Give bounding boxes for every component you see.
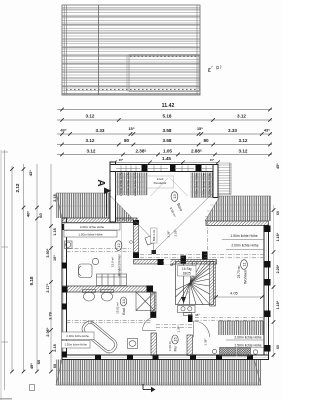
svg-text:1.50m lichte Höhe: 1.50m lichte Höhe [234, 343, 261, 347]
svg-text:2.38⁵: 2.38⁵ [167, 230, 171, 238]
svg-text:80: 80 [203, 138, 209, 143]
svg-text:60: 60 [36, 359, 41, 364]
svg-text:2.88⁵: 2.88⁵ [191, 148, 202, 153]
svg-text:9.18: 9.18 [29, 276, 34, 285]
svg-text:38⁵: 38⁵ [195, 313, 200, 317]
svg-text:2.00m lichte Höhe: 2.00m lichte Höhe [80, 225, 105, 229]
svg-text:2.12: 2.12 [15, 183, 20, 192]
svg-text:40⁶: 40⁶ [25, 211, 30, 217]
svg-text:3.50⁵: 3.50⁵ [46, 248, 50, 257]
svg-text:2.29⁵: 2.29⁵ [276, 264, 280, 273]
svg-text:2.00m lichte Höhe: 2.00m lichte Höhe [231, 244, 258, 248]
svg-text:45⁶: 45⁶ [119, 158, 124, 162]
svg-text:15.9 m²: 15.9 m² [111, 257, 115, 267]
svg-text:3.12: 3.12 [86, 138, 95, 143]
svg-text:1.50m lichte Höhe: 1.50m lichte Höhe [64, 343, 87, 347]
svg-text:80: 80 [124, 138, 130, 143]
svg-text:5.18: 5.18 [163, 114, 172, 119]
svg-text:2.29⁵: 2.29⁵ [174, 229, 178, 237]
svg-text:49⁵: 49⁵ [29, 363, 34, 369]
svg-text:60: 60 [38, 213, 43, 218]
svg-text:10⁵: 10⁵ [53, 255, 57, 261]
svg-text:1.50m lichte Höhe: 1.50m lichte Höhe [230, 234, 257, 238]
svg-text:11.42: 11.42 [162, 103, 175, 109]
svg-text:2.00m lichte Höhe: 2.00m lichte Höhe [126, 172, 130, 197]
svg-text:2.00m lichte Höhe: 2.00m lichte Höhe [66, 334, 89, 338]
svg-text:45⁶: 45⁶ [210, 158, 215, 162]
svg-text:2.08⁵: 2.08⁵ [46, 327, 50, 336]
svg-text:1.50m lichte Höhe: 1.50m lichte Höhe [119, 172, 123, 197]
svg-text:43⁵: 43⁵ [60, 128, 66, 133]
svg-text:60: 60 [276, 211, 280, 215]
svg-text:88⁵: 88⁵ [170, 263, 175, 267]
svg-text:3.33: 3.33 [96, 128, 105, 133]
svg-text:4.69 m²: 4.69 m² [168, 341, 172, 351]
svg-text:1.38⁵: 1.38⁵ [204, 338, 208, 346]
svg-text:1.50m lichte Höhe: 1.50m lichte Höhe [202, 173, 206, 198]
svg-text:4.05: 4.05 [230, 291, 239, 296]
svg-text:15.02 m²: 15.02 m² [116, 302, 120, 314]
svg-text:1.50m lichte Höhe: 1.50m lichte Höhe [78, 232, 103, 236]
svg-text:Kinderzimmer: Kinderzimmer [117, 253, 121, 275]
svg-text:16 Stg: 16 Stg [182, 267, 192, 271]
svg-text:13: 13 [172, 194, 177, 199]
svg-text:3.58: 3.58 [163, 138, 172, 143]
svg-text:15⁵: 15⁵ [128, 126, 134, 131]
svg-text:15⁵: 15⁵ [197, 126, 203, 131]
svg-text:2.00m lichte Höhe: 2.00m lichte Höhe [234, 336, 261, 340]
svg-text:3.79: 3.79 [48, 312, 52, 319]
svg-text:1.18: 1.18 [53, 228, 57, 235]
svg-text:1.05: 1.05 [163, 148, 172, 153]
svg-text:2.17⁵: 2.17⁵ [46, 283, 50, 292]
svg-text:A: A [95, 179, 106, 186]
svg-text:18/25: 18/25 [183, 272, 191, 276]
svg-text:1.18⁵: 1.18⁵ [276, 300, 280, 309]
svg-text:3.12: 3.12 [239, 138, 248, 143]
svg-text:Flur: Flur [173, 345, 177, 352]
svg-text:43⁵: 43⁵ [28, 170, 33, 176]
svg-text:12: 12 [116, 243, 121, 248]
svg-text:1.18⁵: 1.18⁵ [276, 232, 280, 241]
svg-text:2.00m lichte Höhe: 2.00m lichte Höhe [133, 172, 137, 197]
svg-text:14: 14 [121, 299, 126, 304]
svg-text:45⁶: 45⁶ [276, 163, 280, 169]
svg-text:ε´ ⁽¹⁾: ε´ ⁽¹⁾ [207, 65, 222, 74]
svg-text:2.18: 2.18 [53, 344, 57, 351]
svg-text:60: 60 [276, 345, 280, 349]
svg-text:3.12: 3.12 [87, 148, 96, 153]
svg-text:3.58: 3.58 [163, 128, 172, 133]
svg-text:3.12: 3.12 [239, 148, 248, 153]
svg-text:1.45: 1.45 [162, 156, 171, 161]
svg-text:2.38⁵: 2.38⁵ [135, 148, 146, 153]
svg-text:Wohnen: Wohnen [244, 270, 248, 284]
svg-text:3.33: 3.33 [228, 128, 237, 133]
svg-text:Bad: Bad [122, 308, 126, 314]
svg-text:7: 7 [187, 291, 189, 295]
svg-text:15: 15 [173, 337, 178, 342]
svg-text:1.38⁵: 1.38⁵ [177, 325, 181, 333]
svg-text:43⁵: 43⁵ [264, 128, 270, 133]
svg-text:3.12: 3.12 [86, 114, 95, 119]
svg-text:BRH 1.03: BRH 1.03 [152, 229, 156, 241]
svg-text:3.12: 3.12 [237, 114, 246, 119]
svg-text:1.50m lichte Höhe: 1.50m lichte Höhe [208, 173, 212, 198]
svg-text:23.73 m²: 23.73 m² [237, 266, 241, 279]
